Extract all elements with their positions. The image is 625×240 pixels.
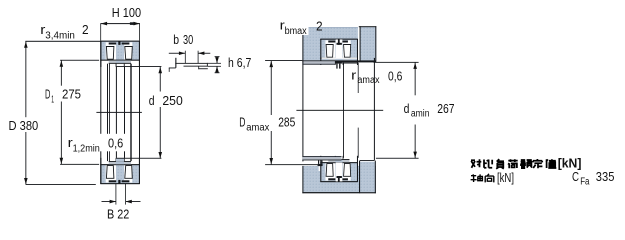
elevation line x124.8: [124, 67, 125, 158]
svg-text:bmax: bmax: [285, 26, 307, 37]
dimension rbmax 2 (text): [277, 18, 323, 37]
white slot in bottom support: [319, 166, 324, 171]
right end vertical: [206, 63, 209, 67]
dimension D 380: [9, 41, 96, 185]
h ext ticks: [208, 62, 221, 65]
char zhou: [471, 174, 483, 182]
svg-text:1,2min: 1,2min: [73, 143, 100, 154]
dimension B 22: [102, 184, 141, 222]
char he: [508, 159, 517, 168]
dimension r12min 0,6 (text only): [68, 135, 124, 155]
housing shoulder band top: [302, 61, 335, 64]
center column white in situ bottom: [336, 163, 343, 182]
svg-text:d: d: [404, 101, 410, 116]
plate bottom line: [184, 65, 208, 68]
shaft ring block blue: [360, 27, 377, 61]
bottom lip step: [197, 66, 200, 69]
through line bottom: [359, 161, 360, 194]
heading: 对比负荷额定值 [kN] (hand-drawn glyphs): [471, 159, 556, 169]
svg-text:amax: amax: [357, 75, 379, 86]
svg-text:d: d: [149, 93, 155, 108]
char xiang: [485, 174, 494, 183]
b dim lines + arrows: [169, 52, 185, 55]
svg-text:2: 2: [316, 18, 323, 33]
shaft ring block bottom blue: [360, 162, 376, 193]
seam white: [358, 27, 359, 61]
dimension H 100: [100, 5, 141, 41]
char ding: [533, 159, 542, 168]
bottom support blue: [302, 166, 375, 193]
bearing section upper half: [100, 41, 140, 67]
shaft face vertical lower: [357, 128, 360, 158]
hook tick: [168, 68, 171, 72]
svg-text:250: 250: [162, 93, 182, 108]
main shoulder line: [302, 60, 376, 62]
elevation line x131 thick: [130, 64, 131, 161]
locating clip top: [335, 61, 342, 64]
profile top line: [175, 62, 208, 65]
centerline left figure: [96, 111, 141, 114]
washer face vertical x343.5: [342, 63, 345, 158]
elevation line x107.6: [107, 64, 108, 161]
svg-text:H 100: H 100: [112, 5, 141, 20]
shaft face vertical upper: [357, 63, 360, 93]
svg-text:h: h: [228, 55, 234, 70]
svg-text:[kN]: [kN]: [497, 171, 514, 185]
char zhi: [546, 159, 556, 168]
svg-text:1: 1: [51, 95, 54, 106]
svg-text:D: D: [45, 87, 50, 102]
centerline right figure: [296, 109, 383, 112]
svg-text:b: b: [173, 32, 179, 47]
shaft surface line top: [342, 62, 358, 65]
housing shoulder band bottom: [302, 157, 341, 160]
svg-text:0,6: 0,6: [108, 136, 123, 151]
locating clip bottom: [318, 160, 319, 164]
shaft ring borders: [359, 26, 377, 27]
h dim arrows: [216, 57, 219, 64]
svg-text:275: 275: [62, 87, 81, 102]
char e: [521, 160, 532, 168]
svg-text:B 22: B 22: [107, 207, 129, 222]
dimension damin 267: [374, 58, 455, 159]
svg-text:267: 267: [437, 101, 454, 116]
char dui: [471, 159, 481, 168]
center column white in situ top: [336, 39, 343, 58]
housing block top-left blue: [302, 27, 358, 60]
lip vertical: [175, 58, 176, 68]
svg-text:3,4min: 3,4min: [45, 31, 75, 42]
b ext left: [184, 51, 187, 63]
char fu: [496, 159, 504, 169]
dimension D1 275: [45, 60, 99, 165]
white backing for r12 text: [64, 134, 125, 152]
svg-text:D: D: [239, 115, 245, 130]
svg-text:0,6: 0,6: [388, 69, 402, 84]
dimension ramax 0,6 (text): [351, 67, 402, 86]
dimension Damax 285: [239, 60, 317, 165]
svg-text:C: C: [572, 169, 579, 184]
svg-text:285: 285: [278, 114, 295, 129]
left face silhouette line: [100, 41, 101, 184]
housing top edge (soft): [302, 26, 358, 29]
svg-text:Fa: Fa: [580, 176, 590, 187]
svg-text:30: 30: [183, 32, 193, 47]
d extension line top: [116, 65, 161, 68]
svg-text:r: r: [351, 67, 357, 82]
dimension r34min 2 (leader + text): [25, 22, 100, 42]
b ext right: [197, 51, 200, 63]
bearing section lower half (mirror): [100, 158, 140, 184]
shaft washer center column fill bottom: [116, 158, 124, 161]
right silhouette vertical: [374, 58, 375, 160]
elevation line x116: [116, 67, 117, 158]
char bi: [484, 160, 492, 168]
right face silhouette line: [139, 41, 140, 184]
svg-text:335: 335: [596, 169, 615, 184]
bearing section in situ lower: [320, 156, 358, 182]
d extension line bottom: [116, 157, 161, 160]
svg-text:D 380: D 380: [9, 118, 39, 133]
bottom support borders: [302, 192, 375, 193]
left edge long vertical: [302, 27, 303, 161]
svg-text:6,7: 6,7: [237, 55, 252, 70]
bearing section in situ upper: [320, 39, 358, 65]
svg-text:amax: amax: [246, 123, 269, 134]
hook horizontal: [169, 67, 176, 70]
svg-text:amin: amin: [411, 109, 430, 120]
bottom lip line: [198, 67, 208, 70]
line2: 轴向 [kN]: [471, 174, 494, 183]
band line bottom right part: [360, 159, 375, 162]
dimension d 250: [149, 67, 183, 159]
elevation line x109.2: [108, 64, 111, 161]
svg-text:2: 2: [82, 22, 89, 37]
